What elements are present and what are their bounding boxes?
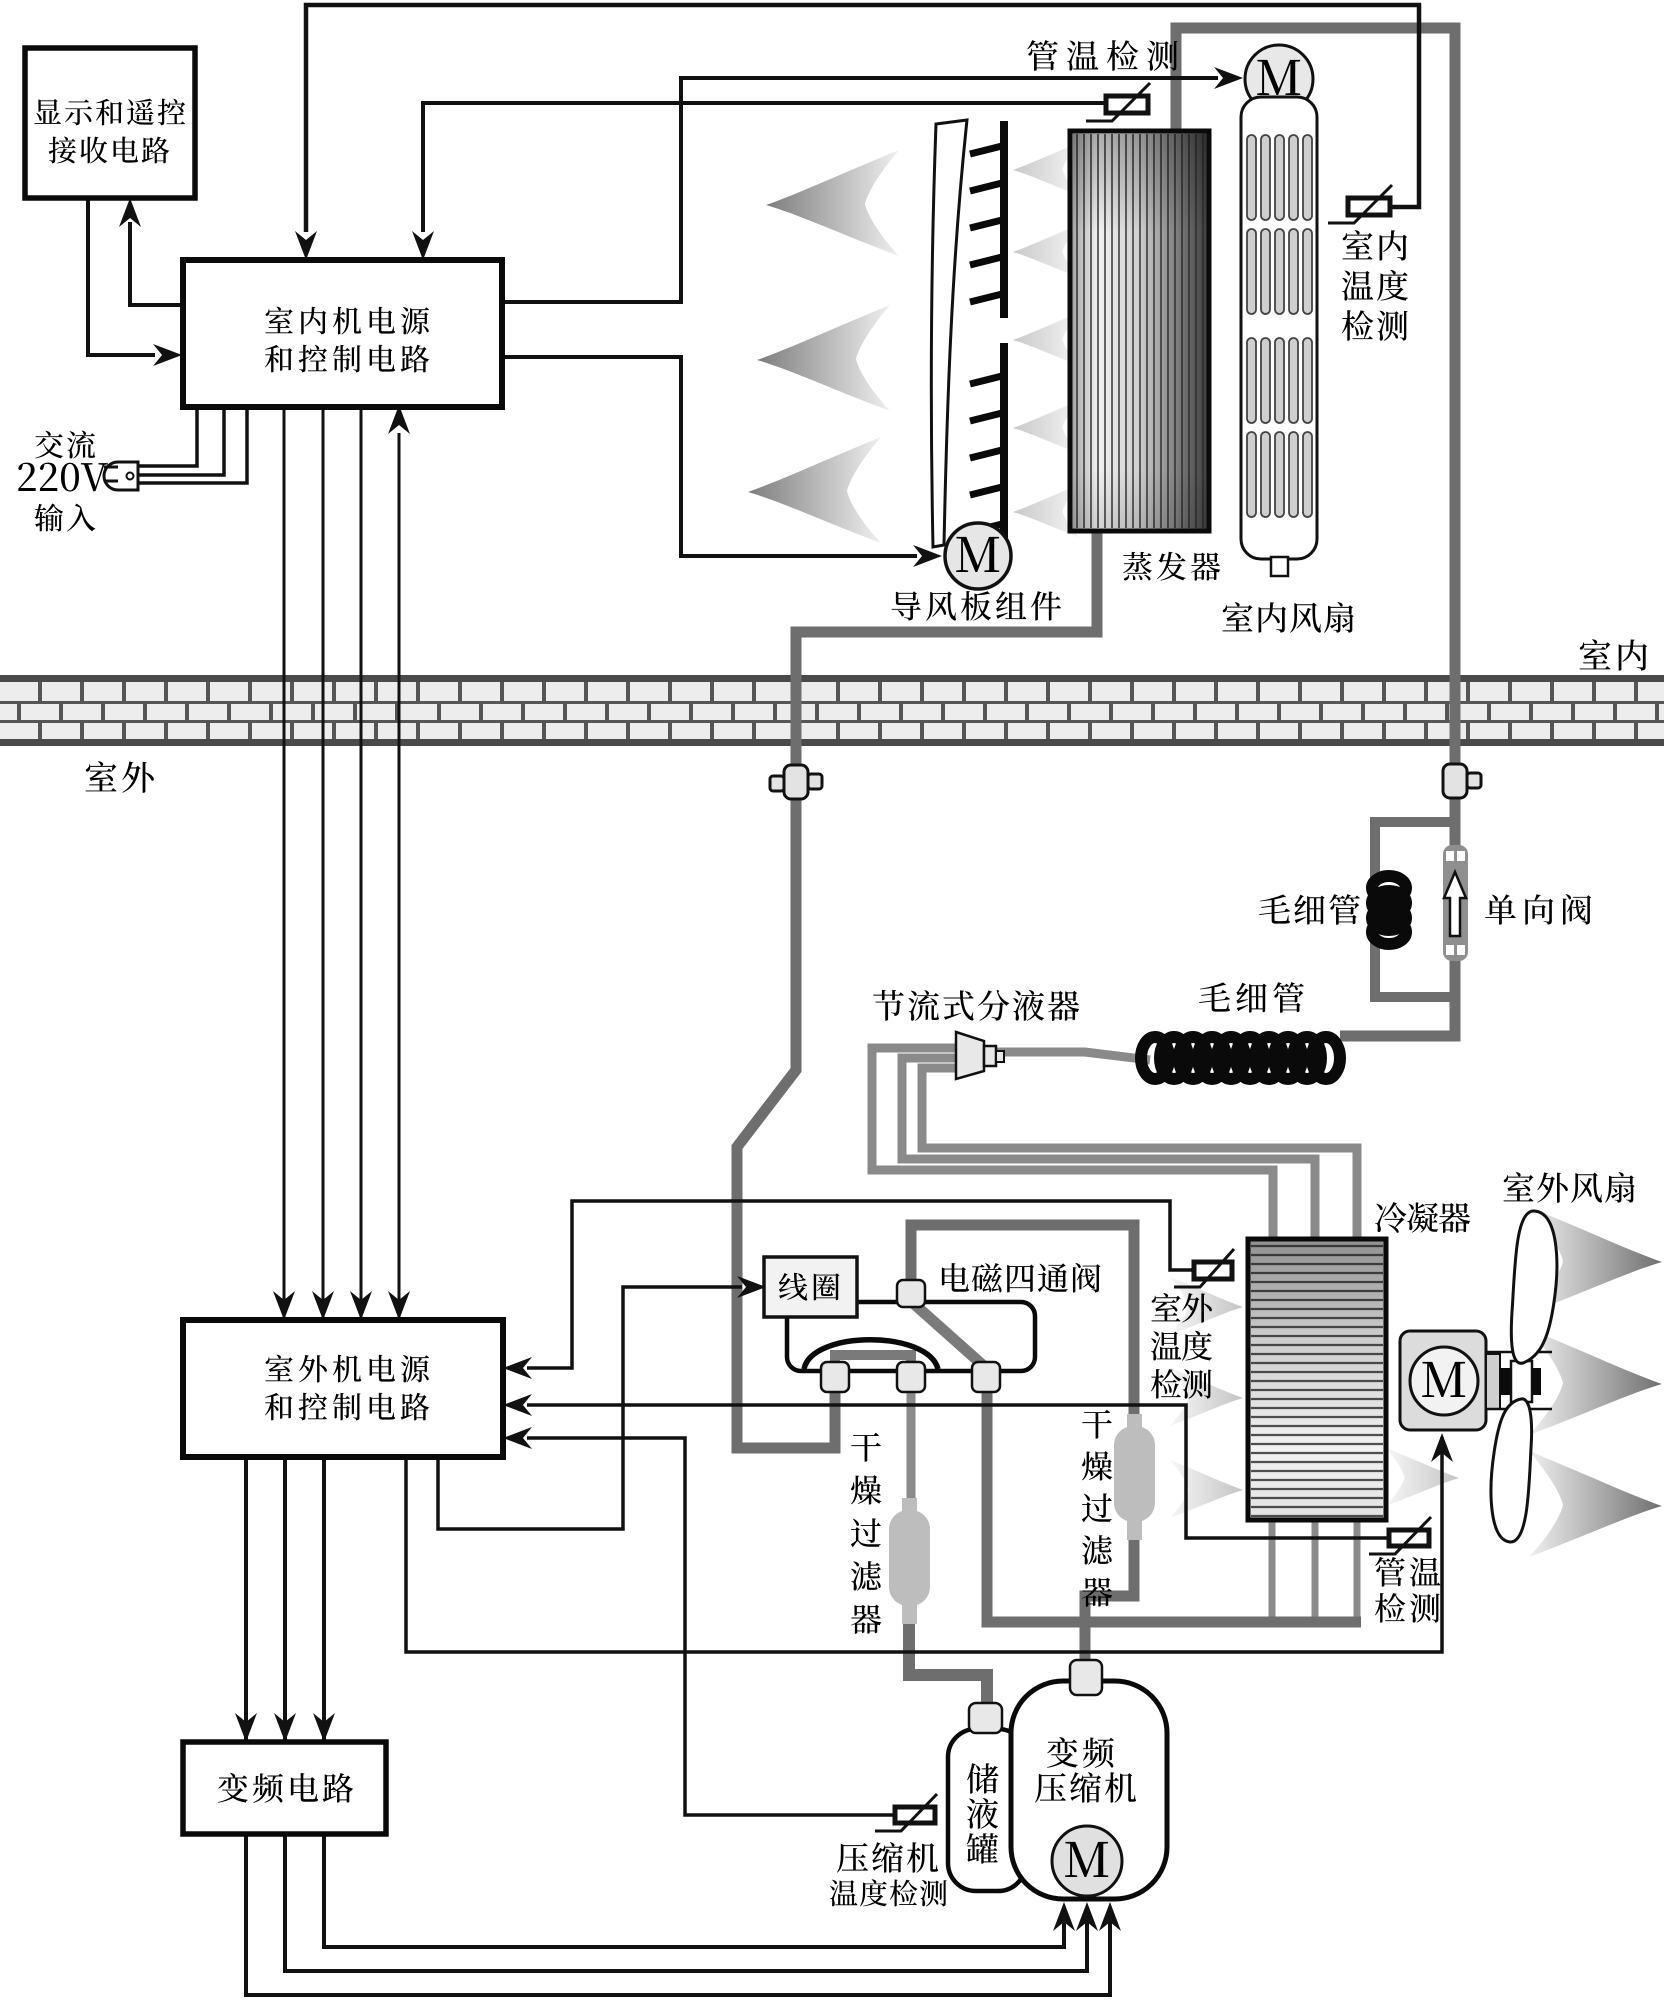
throttling distributor [956,1032,1004,1079]
label: inverter compressor line1 [1047,1737,1114,1768]
pipe: capillary feed B to condenser [902,1058,1315,1243]
capillary tube coil (vertical, bypass) [1372,876,1406,944]
inverter compressor top port [1070,1660,1102,1695]
pipe: four-way valve middle port through left dryer-filter to accumulator [907,1390,916,1510]
wire: condenser pipe-temp sensor to outdoor controller [527,1405,1389,1538]
label: and control circuit [265,1393,429,1421]
label: capillary (bypass) [1259,894,1360,925]
AC 220V input plug [104,462,138,490]
inverter compressor body [1011,1681,1167,1899]
label: accumulator tank [967,1763,999,1863]
pipe: capillary feed A to condenser [872,1048,1273,1243]
label: evaporator [1123,552,1220,581]
label: indoor unit power [265,307,429,335]
wall between indoor and outdoor [0,675,1664,746]
box: outdoor unit power and control circuit [183,1320,503,1457]
outdoor fan motor box [1400,1331,1486,1430]
label: condenser [1375,1202,1470,1233]
wire: display box to indoor controller (up) [130,222,182,305]
pipe: four-way valve internal passage left-middle [835,1355,911,1369]
one-way check valve [1443,845,1468,961]
louver fin bar lower [970,343,1008,538]
louver fin bar upper [970,121,1008,318]
accumulator tank [948,1729,1026,1891]
wire: AC mains line 3 [138,405,247,483]
four-way valve bottom-left port [821,1362,849,1392]
wire: indoor controller to indoor fan motor [502,78,1218,302]
label: room temp line2 [1342,270,1408,301]
label: pipe temp detection (evaporator) [1027,40,1177,71]
wire: room temperature sensor to indoor controller [306,5,1419,232]
label: indoor [1580,639,1648,670]
label: inverter circuit [218,1773,353,1803]
label: AC [35,431,95,459]
wire: display box from indoor controller [88,198,155,355]
capillary tube coil (horizontal) [1141,1037,1340,1079]
label: throttling distributor [873,990,1079,1021]
label: receiver circuit [49,136,170,163]
indoor air flow arrows (small) [1013,143,1080,538]
label: outdoor temp line1 [1151,1293,1211,1323]
pipe: capillary feed C to condenser [922,1068,1357,1243]
thermistor: outdoor temperature [1174,1249,1234,1287]
four-way valve bottom-middle port [897,1362,925,1392]
wire: AC mains line 2 [138,405,224,475]
label: outdoor temp line2 [1151,1331,1212,1361]
label: input [35,504,96,532]
box: display and remote receiver circuit [25,48,195,198]
wire bus: indoor to outdoor controller line 4 (bidirectional) [398,433,401,1318]
box: indoor unit power and control circuit [183,260,502,407]
label: coil [779,1273,840,1301]
pipe: evaporator inlet from top [1176,28,1455,768]
pipe: four-way valve right port to condenser manifold [987,1390,1361,1622]
outdoor air flow arrows (small) [1170,1277,1459,1518]
label: solenoid four-way valve [942,1263,1100,1293]
outdoor fan blade upper [1511,1211,1557,1363]
thermistor: condenser pipe temperature [1369,1517,1431,1554]
wire: compressor temp sensor to outdoor controller [527,1438,895,1815]
wire: inverter to compressor phase 3 [324,1834,1064,1947]
dryer filter (left, on suction line) [889,1498,930,1624]
outdoor air flow arrows (large) [1529,1207,1662,1557]
indoor fan motor M [1245,45,1313,113]
wire bus: indoor to outdoor controller line 3 [360,405,363,1318]
pipe: distributor to horizontal capillary [995,1052,1150,1060]
label: compressor temp line2 [830,1879,947,1906]
wire bus: indoor to outdoor controller line 1 [283,405,286,1318]
label: inverter compressor line2 [1035,1772,1136,1803]
four-way valve top port [897,1280,925,1307]
label: dryer filter (left) [851,1433,882,1634]
label: one-way valve [1485,894,1591,925]
wire: outdoor controller to inverter line 3 [322,1457,326,1740]
union fitting on indoor-outdoor pipe (right) [1443,764,1481,798]
outdoor fan motor M circle [1410,1347,1478,1415]
pipe: capillary bypass branch [1375,822,1450,885]
dryer filter (right, on discharge line) [1114,1414,1155,1540]
thermistor: evaporator pipe temperature [1086,83,1150,121]
solenoid four-way valve body [787,1302,1035,1371]
thermistor: room temperature [1328,185,1392,223]
pipe: condenser bottom stubs [1272,1518,1357,1618]
label: louver assembly [892,591,1062,621]
label: room temp line3 [1342,310,1408,341]
pipe: four-way valve top port loop to right dryer-filter and compressor [911,1225,1134,1430]
label: outdoor unit power [265,1355,429,1383]
label: outdoor temp line3 [1151,1369,1212,1399]
wire: outdoor temp sensor to outdoor controller [527,1201,1194,1368]
label: pipe temp (condenser) line2 [1375,1593,1440,1623]
label: outdoor [86,761,154,793]
indoor fan body [1241,97,1317,576]
outdoor fan shaft and hub [1486,1354,1541,1409]
box: inverter circuit [183,1742,386,1834]
wire: inverter to compressor phase 2 [285,1834,1087,1971]
wire: indoor controller to louver motor [502,357,917,556]
wire bus: indoor to outdoor controller line 2 [322,405,325,1318]
thermistor: compressor temperature [875,1794,937,1831]
evaporator [1070,131,1209,531]
four-way valve internal diagonal (gray) [913,1303,986,1368]
label: outdoor fan [1503,1172,1634,1203]
pipe: four-way valve internal diagonal top-right [911,1301,986,1369]
indoor air flow arrows (large) [748,150,899,543]
label: dryer filter (right) [1082,1410,1113,1607]
louver motor M [945,523,1011,589]
wire: outdoor controller to four-way valve coil [438,1287,742,1529]
four-way valve slider arc [804,1340,938,1369]
solenoid coil box [764,1257,857,1317]
outdoor fan wires to hub [1486,1351,1552,1354]
accumulator tank top port [969,1703,1002,1733]
compressor motor M [1052,1826,1122,1896]
louver blade [931,120,967,547]
wire: evaporator pipe-temp sensor to indoor controller [423,103,1106,232]
label: 220V [18,463,107,492]
wire: outdoor controller to outdoor fan motor [406,1437,1442,1652]
wire: inverter to compressor phase 1 [246,1834,1110,1995]
wire: AC mains line 1 [138,405,197,466]
four-way valve bottom-right port [972,1362,1000,1392]
label: display and remote-control [34,99,185,126]
wire: outdoor controller to inverter line 1 [244,1457,248,1740]
label: room temp line1 [1342,230,1407,260]
label: and control circuit [265,345,429,373]
label: pipe temp (condenser) line1 [1375,1557,1440,1587]
wire: outdoor controller to inverter line 2 [283,1457,287,1740]
union fitting on indoor-outdoor pipe (left) [770,765,822,799]
label: capillary (main) [1199,982,1304,1013]
condenser [1248,1239,1386,1520]
outdoor fan blade lower [1491,1399,1532,1542]
pipe: evaporator outlet to wall union [737,525,1097,1448]
four-way valve internal passage (gray) [835,1355,911,1371]
label: indoor fan [1222,602,1353,633]
pipe: right main below wall union to check-valve branch [1340,797,1455,1036]
label: compressor temp line1 [837,1842,938,1873]
